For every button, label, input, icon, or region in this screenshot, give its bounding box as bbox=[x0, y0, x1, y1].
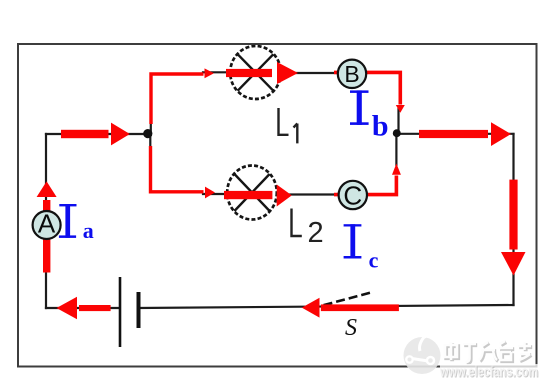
svg-text:a: a bbox=[83, 218, 94, 243]
svg-text:b: b bbox=[372, 110, 389, 143]
svg-text:S: S bbox=[345, 315, 357, 341]
svg-text:C: C bbox=[343, 181, 362, 211]
svg-text:2: 2 bbox=[308, 217, 324, 249]
svg-text:www.elecfans.com: www.elecfans.com bbox=[439, 364, 538, 381]
svg-text:B: B bbox=[344, 61, 359, 87]
svg-text:A: A bbox=[38, 209, 56, 239]
svg-text:c: c bbox=[369, 247, 379, 272]
